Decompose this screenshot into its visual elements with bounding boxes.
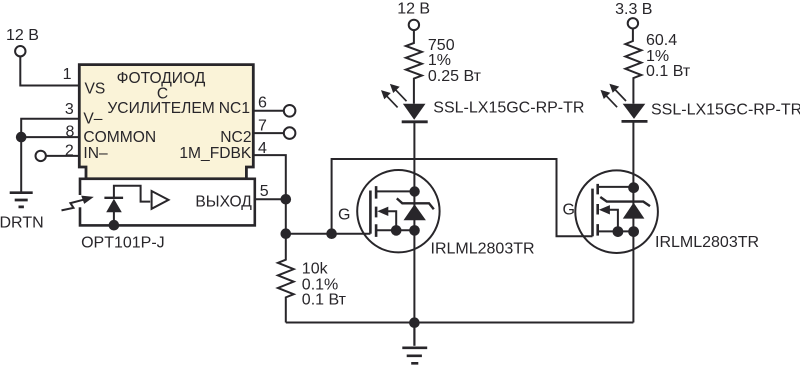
pin 5 wire output [255, 198, 286, 200]
svg-text:0.25 Вт: 0.25 Вт [428, 68, 482, 85]
ground symbol bottom [413, 323, 415, 346]
Q2 body diode zener [600, 197, 650, 206]
pin 3 wire [21, 119, 79, 137]
Q2 channel segments [596, 184, 599, 236]
pin 2 wire [46, 155, 79, 157]
svg-text:SSL-LX15GC-RP-TR: SSL-LX15GC-RP-TR [433, 99, 584, 116]
svg-text:OPT101P-J: OPT101P-J [81, 235, 165, 252]
svg-text:ВЫХОД: ВЫХОД [195, 193, 252, 210]
wire gate rail to Q1 [286, 233, 371, 235]
junction pin5 output node [281, 194, 292, 205]
wire ground rail [286, 322, 634, 324]
terminal IN- pin2 [36, 151, 46, 161]
svg-text:IRLML2803TR: IRLML2803TR [655, 234, 759, 251]
Q1 drain connection [376, 190, 414, 192]
svg-text:3.3 В: 3.3 В [615, 1, 652, 18]
pin 8 wire [21, 137, 79, 192]
IC U1 lower white box [80, 179, 255, 226]
svg-text:1%: 1% [428, 52, 451, 69]
pin 6 wire [254, 110, 284, 112]
Q1 body arrow [377, 207, 388, 216]
svg-text:12 В: 12 В [6, 27, 39, 44]
Q2 gate bar [591, 189, 594, 237]
svg-text:1M_FDBK: 1M_FDBK [179, 145, 252, 162]
terminal 12V left [15, 46, 25, 56]
terminal 3.3V [628, 18, 638, 28]
svg-text:V–: V– [83, 110, 102, 127]
svg-text:5: 5 [260, 183, 269, 200]
wire LED1 cathode to Q1 drain and down to rail [413, 122, 415, 323]
Q2 source connection [598, 230, 634, 232]
LED D2 light arrows [381, 84, 407, 108]
svg-text:6: 6 [258, 95, 267, 112]
svg-text:12 В: 12 В [397, 0, 430, 17]
Q2 body circle [575, 170, 658, 253]
svg-text:0.1 Вт: 0.1 Вт [646, 63, 691, 80]
svg-text:IN–: IN– [83, 145, 108, 162]
transistor Q1 IRLML2803TR [357, 170, 439, 252]
op-amp A1 inside OPT101 [152, 191, 169, 209]
Q1 body circle [357, 170, 439, 252]
white box left border redraw with gap for light arrow [78, 195, 82, 207]
IC U1 cream body [79, 65, 253, 179]
svg-text:60.4: 60.4 [646, 32, 677, 49]
svg-text:SSL-LX15GC-RP-TR: SSL-LX15GC-RP-TR [651, 102, 800, 119]
svg-text:NC1: NC1 [219, 100, 250, 117]
svg-text:4: 4 [258, 140, 267, 157]
light arrow into photodiode [62, 196, 94, 211]
terminal NC1 pin6 [284, 105, 296, 117]
Q1 source connection [376, 229, 414, 231]
resistor R1 750 [406, 30, 422, 104]
svg-text:7: 7 [258, 118, 267, 135]
svg-text:VS: VS [85, 81, 106, 98]
pin 7 wire [254, 132, 284, 134]
svg-text:10k: 10k [302, 261, 329, 278]
terminal 12V LED1 [409, 20, 419, 30]
svg-text:ФОТОДИОД: ФОТОДИОД [117, 70, 206, 87]
svg-text:3: 3 [65, 101, 74, 118]
junction pin3/pin8 [16, 132, 27, 143]
LED D2 [402, 104, 428, 122]
svg-text:G: G [338, 206, 350, 223]
junction gate rail left [281, 228, 292, 239]
junction gate branch [326, 228, 337, 239]
wire output node down to gate rail [285, 199, 287, 233]
svg-text:G: G [563, 202, 575, 219]
junction ground rail [409, 317, 420, 328]
Q1 gate bar [369, 191, 372, 234]
terminal NC2 pin7 [284, 127, 296, 139]
photodiode D1 inside OPT101 [104, 186, 150, 231]
svg-text:0.1 Вт: 0.1 Вт [302, 292, 347, 309]
svg-text:УСИЛИТЕЛЕМ: УСИЛИТЕЛЕМ [107, 100, 214, 117]
ground DRTN [10, 193, 33, 207]
wire pin1 from 12V [20, 56, 78, 85]
resistor R2 60.4 [625, 29, 641, 104]
resistor R3 10k [278, 234, 294, 323]
svg-text:DRTN: DRTN [0, 215, 44, 232]
svg-text:COMMON: COMMON [83, 129, 156, 146]
LED D3 light arrows [601, 84, 627, 108]
Q1 body diode zener [397, 198, 434, 209]
wire gate branch up and over to Q2 [332, 159, 593, 236]
pin 4 wire feedback [254, 155, 286, 199]
Q1 channel segments [375, 186, 378, 237]
Q2 body arrow [599, 205, 610, 214]
svg-text:2: 2 [65, 143, 74, 160]
transistor Q2 IRLML2803TR [575, 170, 658, 253]
svg-text:1: 1 [63, 66, 72, 83]
svg-text:8: 8 [65, 123, 74, 140]
svg-text:IRLML2803TR: IRLML2803TR [431, 240, 535, 257]
Q2 drain connection [598, 186, 634, 188]
wire LED2 cathode to Q2 drain and down to rail [632, 121, 634, 322]
svg-text:NC2: NC2 [220, 129, 251, 146]
LED D3 [622, 104, 648, 122]
